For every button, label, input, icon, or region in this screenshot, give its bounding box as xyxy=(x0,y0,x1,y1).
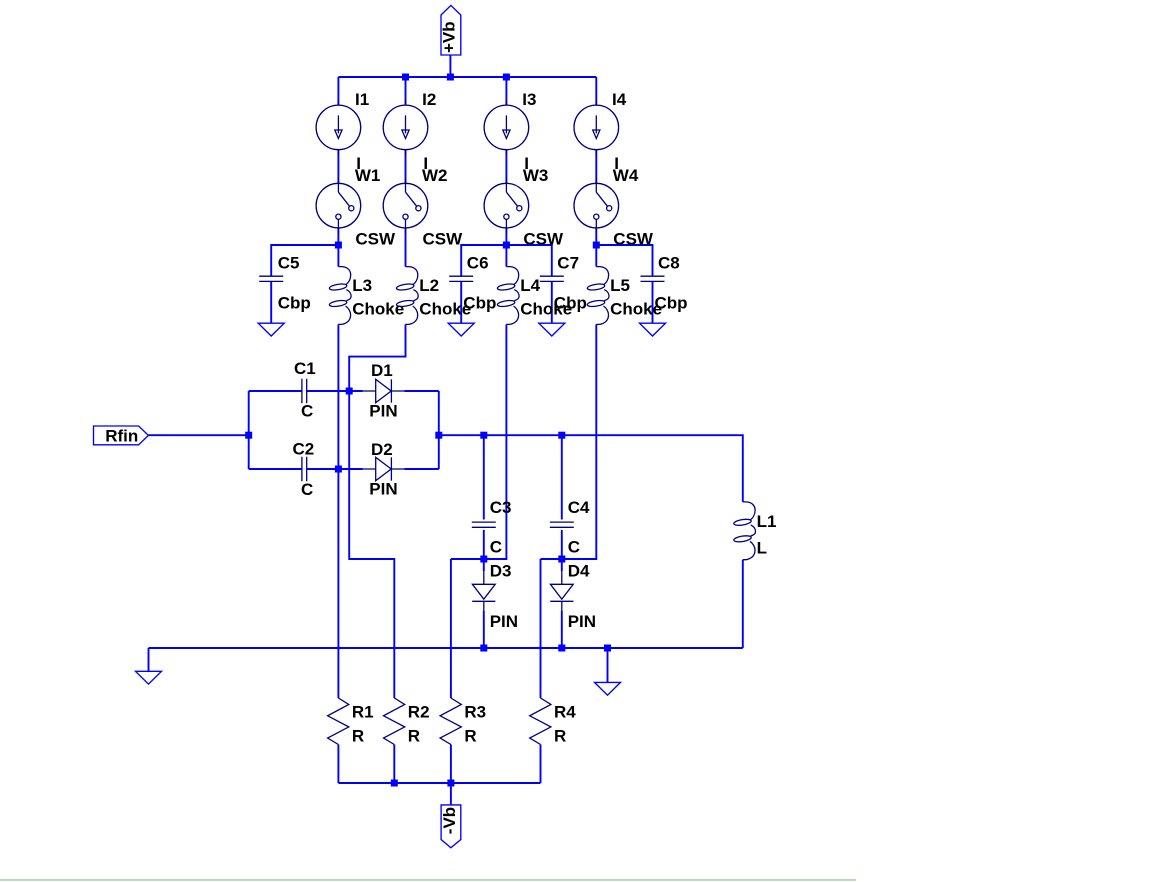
current source I4 xyxy=(574,100,619,155)
svg-text:C1: C1 xyxy=(294,359,316,378)
svg-text:C6: C6 xyxy=(467,254,489,273)
capacitor C6 xyxy=(449,276,473,281)
svg-text:L: L xyxy=(757,539,767,558)
svg-text:W3: W3 xyxy=(523,166,549,185)
wire rail left ground stub xyxy=(148,648,150,671)
svg-text:I4: I4 xyxy=(612,90,627,109)
wire C1 left xyxy=(249,390,302,392)
ground below C6 xyxy=(448,323,474,336)
resistor R2 xyxy=(384,698,405,745)
svg-text:C8: C8 xyxy=(658,254,680,273)
wire D4 to rail xyxy=(561,611,563,648)
node junction C3-D3 xyxy=(480,556,487,563)
wire I3 to W3 xyxy=(505,150,507,184)
flag +Vb xyxy=(441,5,461,55)
node junction Rfin ring xyxy=(245,432,252,439)
wire I2 to W2 xyxy=(405,150,407,184)
wire -Vb stub xyxy=(450,783,452,805)
resistor R3 xyxy=(440,698,461,745)
capacitor C8 xyxy=(641,276,665,281)
svg-text:Choke: Choke xyxy=(610,300,662,319)
node junction D3 rail xyxy=(480,645,487,652)
svg-text:Rfin: Rfin xyxy=(105,427,138,446)
svg-text:CSW: CSW xyxy=(523,229,564,248)
node junction D2 anode xyxy=(335,466,342,473)
wire node C3-D3 down to R3 xyxy=(450,559,452,698)
inductor L2 xyxy=(396,267,418,325)
svg-text:D3: D3 xyxy=(490,562,512,581)
wire node W3 to C6 xyxy=(461,245,506,276)
node junction ring output xyxy=(435,432,442,439)
port Rfin xyxy=(94,426,149,445)
wire I4 to W4 xyxy=(595,150,597,184)
wire W4 to L5 top xyxy=(595,228,597,267)
svg-text:CSW: CSW xyxy=(423,229,464,248)
wire C6 to ground xyxy=(460,281,462,323)
svg-text:I3: I3 xyxy=(522,90,536,109)
svg-text:C2: C2 xyxy=(293,440,315,459)
inductor L5 xyxy=(587,267,609,325)
svg-text:I2: I2 xyxy=(422,90,436,109)
svg-text:Choke: Choke xyxy=(520,300,572,319)
svg-text:I1: I1 xyxy=(355,90,369,109)
capacitor C2 xyxy=(302,457,307,482)
wire R4 bottom xyxy=(540,745,542,784)
flag -Vb xyxy=(441,805,461,848)
wire C2 left xyxy=(249,468,302,470)
capacitor C5 xyxy=(259,276,283,281)
resistor R4 xyxy=(530,698,551,745)
svg-text:C: C xyxy=(490,538,502,557)
wire L5 down to node C4-D4 xyxy=(541,324,597,559)
node junction bus-I3 xyxy=(503,74,510,81)
wire W2 to L2 top xyxy=(405,228,407,267)
wire C7 to ground xyxy=(551,281,553,323)
wire bus drop to I3 xyxy=(505,77,507,105)
wire ring right vertical xyxy=(438,391,440,469)
svg-text:C: C xyxy=(568,538,580,557)
wire bus drop to I4 xyxy=(595,77,597,105)
wire L2 bias jog down to R2 xyxy=(349,324,405,698)
switch W1 xyxy=(316,178,361,233)
svg-text:C4: C4 xyxy=(568,498,590,517)
capacitor C3 xyxy=(472,522,496,527)
wire R2 bottom xyxy=(393,745,395,784)
svg-text:W4: W4 xyxy=(613,166,639,185)
svg-text:R: R xyxy=(408,727,420,746)
wire bottom rail xyxy=(149,647,743,649)
svg-text:R1: R1 xyxy=(352,703,374,722)
svg-text:L1: L1 xyxy=(757,512,777,531)
wire Rfin to ring xyxy=(148,434,248,436)
svg-text:W2: W2 xyxy=(422,166,448,185)
svg-text:R3: R3 xyxy=(464,703,486,722)
diode D4 xyxy=(550,570,573,612)
svg-text:R: R xyxy=(352,727,364,746)
node junction R3 -Vb xyxy=(447,780,454,787)
wire ring left vertical xyxy=(248,391,250,469)
resistor R1 xyxy=(328,698,349,745)
node junction D4 rail xyxy=(558,645,565,652)
node junction D1 anode xyxy=(346,388,353,395)
svg-text:C3: C3 xyxy=(490,498,512,517)
wire top bus xyxy=(338,76,596,78)
svg-text:R2: R2 xyxy=(408,703,430,722)
inductor L1 xyxy=(733,502,755,560)
svg-text:Choke: Choke xyxy=(352,300,404,319)
inductor L3 xyxy=(329,267,351,325)
canvas edge line xyxy=(0,879,856,881)
svg-text:PIN: PIN xyxy=(369,401,397,420)
wire C1 to D1 xyxy=(307,390,363,392)
current source I1 xyxy=(316,100,361,155)
node junction C3 top xyxy=(480,432,487,439)
svg-text:W1: W1 xyxy=(355,166,381,185)
svg-text:C: C xyxy=(301,402,313,421)
diode D2 xyxy=(362,457,405,480)
wire node W4 to C8 xyxy=(596,245,652,276)
wire C8 to ground xyxy=(652,281,654,323)
svg-text:PIN: PIN xyxy=(369,479,397,498)
node junction W1-C5-L3 xyxy=(335,242,342,249)
svg-text:PIN: PIN xyxy=(490,612,518,631)
diode D1 xyxy=(362,379,405,402)
ground below C7 xyxy=(539,323,565,336)
wire W3 to L4 top xyxy=(505,228,507,267)
capacitor C1 xyxy=(302,379,307,404)
svg-text:CSW: CSW xyxy=(355,229,396,248)
wire node to D4 xyxy=(561,559,563,571)
svg-text:R: R xyxy=(464,727,476,746)
node junction bus-Vb xyxy=(447,74,454,81)
svg-text:C: C xyxy=(301,480,313,499)
wire +Vb stub xyxy=(449,55,451,77)
svg-text:R4: R4 xyxy=(554,703,576,722)
wire L4 down to node C3-D3 xyxy=(451,324,507,559)
wire C3 top xyxy=(483,435,485,519)
current source I3 xyxy=(484,100,529,155)
wire C5 to ground xyxy=(270,281,272,323)
wire C4 bottom to node xyxy=(561,530,563,559)
svg-text:-Vb: -Vb xyxy=(440,807,459,834)
inductor L4 xyxy=(497,267,519,325)
svg-text:C5: C5 xyxy=(278,254,300,273)
svg-text:L4: L4 xyxy=(520,276,540,295)
wire C4 top xyxy=(561,435,563,519)
svg-text:PIN: PIN xyxy=(568,612,596,631)
wire I1 to W1 xyxy=(337,150,339,184)
wire D3 to rail xyxy=(483,611,485,648)
svg-text:D1: D1 xyxy=(371,361,393,380)
capacitor C4 xyxy=(550,522,574,527)
svg-text:D2: D2 xyxy=(371,440,393,459)
svg-text:L2: L2 xyxy=(419,276,439,295)
ground below C8 xyxy=(640,323,666,336)
node junction C4-D4 xyxy=(558,556,565,563)
wire resistor rail xyxy=(338,782,540,784)
wire L3 bias line down to R1 xyxy=(337,324,339,698)
switch W3 xyxy=(484,178,529,233)
wire node C4-D4 down to R4 xyxy=(540,559,542,698)
svg-text:R: R xyxy=(554,727,566,746)
switch W2 xyxy=(383,178,428,233)
wire output line to L1 xyxy=(439,435,743,502)
wire C2 to D2 xyxy=(307,468,363,470)
wire node W1 to C5 xyxy=(271,245,338,276)
wire R3 bottom xyxy=(450,745,452,784)
wire L1 bottom to rail xyxy=(742,560,744,648)
ground below C5 xyxy=(258,323,284,336)
wire bus drop to I2 xyxy=(405,77,407,105)
svg-text:C7: C7 xyxy=(557,254,579,273)
wire D2 to ring right xyxy=(405,468,439,470)
svg-text:+Vb: +Vb xyxy=(440,21,459,53)
wire C3 bottom to node xyxy=(483,530,485,559)
wire node to D3 xyxy=(483,559,485,571)
node junction W4-C8-L5 xyxy=(593,242,600,249)
wire node W3 to C7 xyxy=(506,245,551,276)
node junction bus-I2 xyxy=(402,74,409,81)
node junction R2 rail xyxy=(391,780,398,787)
wire R1 bottom xyxy=(337,745,339,784)
diode D3 xyxy=(472,570,495,612)
wire bus drop to I1 xyxy=(337,77,339,105)
wire D1 to ring right xyxy=(405,390,439,392)
svg-text:Choke: Choke xyxy=(419,300,471,319)
capacitor C7 xyxy=(540,276,564,281)
node junction rail ground xyxy=(604,645,611,652)
svg-text:D4: D4 xyxy=(568,562,590,581)
svg-text:CSW: CSW xyxy=(613,229,654,248)
svg-text:L5: L5 xyxy=(610,276,630,295)
node junction C4 top xyxy=(558,432,565,439)
current source I2 xyxy=(383,100,428,155)
switch W4 xyxy=(574,178,619,233)
wire rail right ground stub xyxy=(607,648,609,682)
node junction W3-C6-C7-L4 xyxy=(503,242,510,249)
svg-text:L3: L3 xyxy=(352,276,372,295)
ground bottom left xyxy=(136,671,162,684)
ground bottom right xyxy=(595,682,621,695)
svg-text:Cbp: Cbp xyxy=(278,293,311,312)
wire W1 to L3 top xyxy=(337,228,339,267)
